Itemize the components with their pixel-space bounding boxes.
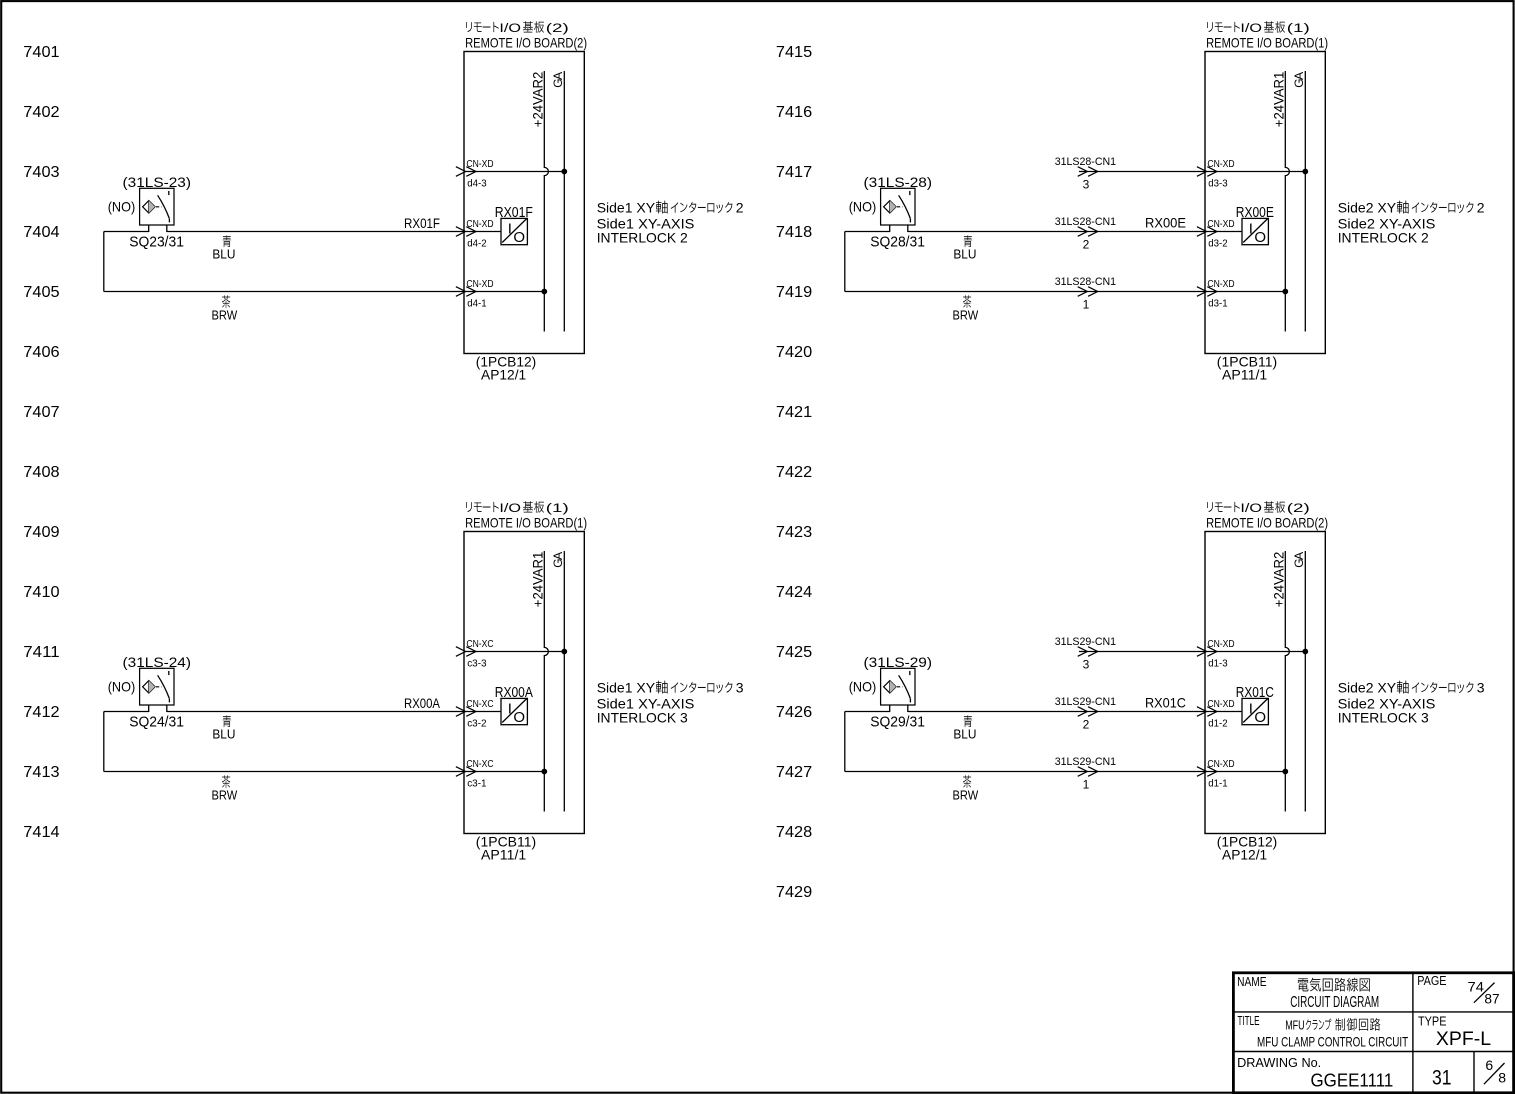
wire SQ28/31 blue lead row — [845, 231, 890, 233]
svg-text:BRW: BRW — [953, 788, 979, 803]
svg-text:BLU: BLU — [212, 247, 235, 262]
svg-text:7412: 7412 — [23, 704, 59, 721]
svg-text:7424: 7424 — [776, 584, 812, 601]
wire SQ24/31 left loop vertical — [103, 712, 105, 772]
svg-text:CN-XD: CN-XD — [1207, 759, 1234, 770]
svg-text:I: I — [508, 701, 512, 718]
svg-text:31LS29-CN1: 31LS29-CN1 — [1055, 636, 1116, 648]
svg-text:REMOTE I/O BOARD(2): REMOTE I/O BOARD(2) — [465, 34, 587, 50]
svg-text:7401: 7401 — [23, 44, 59, 61]
svg-text:(1): (1) — [546, 503, 569, 515]
svg-text:DRAWING No.: DRAWING No. — [1237, 1055, 1321, 1070]
bus GA vertical line — [1304, 71, 1306, 332]
svg-text:7418: 7418 — [776, 224, 812, 241]
svg-text:7408: 7408 — [23, 464, 59, 481]
sheet title Japanese: MFU clamp control circuit — [1285, 1018, 1380, 1033]
svg-text:BRW: BRW — [212, 308, 238, 323]
bus +24VAR2 vertical line with hop over pin wire — [1285, 551, 1289, 812]
svg-text:c3-3: c3-3 — [467, 659, 487, 670]
pin d4-3 wire to GA bus — [464, 171, 564, 173]
svg-text:BRW: BRW — [953, 308, 979, 323]
svg-text:PAGE: PAGE — [1417, 973, 1447, 988]
connector pin CN-XD d1-3 entry arrows — [1197, 647, 1217, 657]
svg-text:d4-2: d4-2 — [467, 239, 487, 250]
cable arrows 31LS29-CN1 pin 1 — [1078, 767, 1098, 777]
svg-text:I/O: I/O — [499, 23, 521, 35]
svg-text:O: O — [1254, 709, 1266, 726]
remote I/O board AP12/1 outline — [464, 52, 584, 354]
line number column 7401-7414 — [23, 44, 59, 841]
svg-text:CN-XD: CN-XD — [1207, 159, 1234, 170]
wire color label brown — [212, 775, 238, 802]
svg-text:INTERLOCK 3: INTERLOCK 3 — [597, 710, 688, 726]
svg-text:1: 1 — [1083, 777, 1090, 791]
svg-text:(31LS-24): (31LS-24) — [123, 654, 192, 670]
pin c3-2 wire to I/O module — [464, 711, 501, 713]
cable arrows 31LS28-CN1 pin 3 — [1078, 167, 1098, 177]
svg-text:c3-2: c3-2 — [467, 719, 487, 730]
connector pin CN-XC c3-1 entry arrows — [456, 767, 476, 777]
line number column 7415-7429 — [776, 44, 812, 901]
svg-text:7425: 7425 — [776, 644, 812, 661]
connector pin CN-XD d3-3 entry arrows — [1197, 167, 1217, 177]
svg-text:2: 2 — [1477, 199, 1485, 215]
svg-text:SQ29/31: SQ29/31 — [870, 714, 925, 731]
svg-text:7423: 7423 — [776, 524, 812, 541]
svg-text:7429: 7429 — [776, 884, 812, 901]
svg-text:d1-3: d1-3 — [1208, 659, 1228, 670]
svg-text:CN-XD: CN-XD — [1207, 639, 1234, 650]
connector pin CN-XD d3-1 entry arrows — [1197, 287, 1217, 297]
svg-text:7426: 7426 — [776, 704, 812, 721]
svg-text:d3-2: d3-2 — [1208, 239, 1228, 250]
wire color label brown — [212, 295, 238, 322]
svg-text:3: 3 — [1083, 657, 1090, 671]
junction node c3-3-GA — [561, 649, 567, 655]
svg-text:7427: 7427 — [776, 764, 812, 781]
svg-text:7411: 7411 — [23, 644, 59, 661]
svg-text:31LS29-CN1: 31LS29-CN1 — [1055, 756, 1116, 768]
connector pin CN-XD d4-1 entry arrows — [456, 287, 476, 297]
svg-text:31LS28-CN1: 31LS28-CN1 — [1055, 156, 1116, 168]
page number fraction 74/87 — [1468, 979, 1500, 1007]
svg-text:(31LS-28): (31LS-28) — [864, 174, 933, 190]
svg-text:INTERLOCK 2: INTERLOCK 2 — [1338, 230, 1429, 246]
svg-text:31LS28-CN1: 31LS28-CN1 — [1055, 276, 1116, 288]
svg-text:(2): (2) — [546, 23, 569, 35]
svg-text:+24VAR2: +24VAR2 — [529, 71, 545, 127]
bus GA vertical line — [563, 71, 565, 332]
svg-text:(31LS-29): (31LS-29) — [864, 654, 933, 670]
svg-text:CN-XC: CN-XC — [466, 759, 493, 770]
svg-text:(NO): (NO) — [108, 679, 136, 695]
svg-text:GA: GA — [551, 552, 565, 568]
I/O module RX00E — [1242, 218, 1268, 246]
svg-text:I/O: I/O — [1240, 503, 1262, 515]
svg-text:O: O — [513, 709, 525, 726]
svg-text:RX01C: RX01C — [1236, 685, 1274, 701]
svg-text:3: 3 — [1477, 679, 1485, 695]
svg-text:7415: 7415 — [776, 44, 812, 61]
bus +24VAR1 vertical line with hop over pin wire — [544, 551, 548, 812]
svg-text:SQ23/31: SQ23/31 — [129, 234, 184, 251]
cable arrows 31LS28-CN1 pin 2 — [1078, 227, 1098, 237]
pin c3-3 wire to GA bus — [464, 651, 564, 653]
pin d3-3 wire to GA bus — [1205, 171, 1305, 173]
svg-text:RX01F: RX01F — [495, 205, 533, 221]
wire color label blue — [953, 715, 976, 741]
svg-text:8: 8 — [1498, 1070, 1506, 1086]
connector pin CN-XD d1-1 entry arrows — [1197, 767, 1217, 777]
svg-text:d1-1: d1-1 — [1208, 779, 1228, 790]
pin d1-1 wire to +24VAR2 bus — [1205, 771, 1285, 773]
svg-text:3: 3 — [736, 679, 744, 695]
svg-text:RX00E: RX00E — [1145, 215, 1186, 231]
svg-text:d3-1: d3-1 — [1208, 299, 1228, 310]
svg-text:Side1 XY: Side1 XY — [597, 679, 656, 695]
pin d1-3 wire to GA bus — [1205, 651, 1305, 653]
bus GA vertical line — [563, 551, 565, 812]
wire SQ29/31 brown return row — [845, 771, 1205, 773]
svg-text:I/O: I/O — [499, 503, 521, 515]
pin d4-1 wire to +24VAR2 bus — [464, 291, 544, 293]
svg-text:SQ28/31: SQ28/31 — [870, 234, 925, 251]
board title AP12/1 Japanese — [466, 21, 569, 35]
svg-text:7419: 7419 — [776, 284, 812, 301]
limit switch SQ23/31 proximity symbol — [140, 188, 174, 232]
svg-text:Side1 XY: Side1 XY — [597, 199, 656, 215]
wire SQ24/31 brown return row — [104, 771, 464, 773]
cable wire 31LS28-CN1 pin 3 to board — [1079, 171, 1205, 173]
function label Side1 XY-axis interlock 3 (Japanese) — [597, 679, 744, 695]
cable wire 31LS29-CN1 pin 3 to board — [1079, 651, 1205, 653]
svg-text:(NO): (NO) — [849, 199, 877, 215]
svg-text:CN-XC: CN-XC — [466, 699, 493, 710]
wire color label blue — [953, 235, 976, 261]
svg-text:CN-XC: CN-XC — [466, 639, 493, 650]
svg-text:CN-XD: CN-XD — [466, 219, 493, 230]
svg-text:6: 6 — [1485, 1057, 1493, 1073]
junction node d1-1-+24VAR2 — [1282, 769, 1288, 775]
svg-text:7428: 7428 — [776, 824, 812, 841]
svg-text:GA: GA — [1292, 552, 1306, 568]
wire SQ24/31 blue lead row — [104, 711, 149, 713]
wire SQ23/31 blue lead row — [104, 231, 149, 233]
title block page-number cell divider — [1473, 1052, 1475, 1093]
svg-text:7409: 7409 — [23, 524, 59, 541]
svg-text:d1-2: d1-2 — [1208, 719, 1228, 730]
svg-text:INTERLOCK 3: INTERLOCK 3 — [1338, 710, 1429, 726]
bus +24VAR1 vertical line with hop over pin wire — [1285, 71, 1289, 332]
svg-text:87: 87 — [1484, 990, 1499, 1006]
svg-text:CN-XD: CN-XD — [466, 279, 493, 290]
connector pin CN-XD d4-3 entry arrows — [456, 167, 476, 177]
svg-text:MFU: MFU — [1285, 1018, 1305, 1033]
junction node d1-3-GA — [1302, 649, 1308, 655]
svg-text:7416: 7416 — [776, 104, 812, 121]
svg-text:CIRCUIT DIAGRAM: CIRCUIT DIAGRAM — [1290, 994, 1379, 1011]
svg-text:(NO): (NO) — [849, 679, 877, 695]
connector pin CN-XD d4-2 entry arrows — [456, 227, 476, 237]
svg-text:(31LS-23): (31LS-23) — [123, 174, 192, 190]
wire SQ23/31 left loop vertical — [103, 232, 105, 292]
svg-text:CN-XD: CN-XD — [466, 159, 493, 170]
sheet fraction 6/8 — [1484, 1057, 1506, 1085]
title block outer frame — [1233, 973, 1513, 1093]
svg-text:Side2 XY: Side2 XY — [1338, 679, 1397, 695]
svg-text:RX01F: RX01F — [404, 215, 440, 231]
svg-text:7417: 7417 — [776, 164, 812, 181]
cable arrows 31LS29-CN1 pin 2 — [1078, 707, 1098, 717]
svg-text:31LS28-CN1: 31LS28-CN1 — [1055, 216, 1116, 228]
svg-text:d4-1: d4-1 — [467, 299, 487, 310]
svg-text:7403: 7403 — [23, 164, 59, 181]
wire SQ29/31 left loop vertical — [844, 712, 846, 772]
svg-text:7410: 7410 — [23, 584, 59, 601]
svg-text:7413: 7413 — [23, 764, 59, 781]
limit switch SQ28/31 proximity symbol — [881, 188, 915, 232]
svg-text:BLU: BLU — [212, 727, 235, 742]
svg-text:7414: 7414 — [23, 824, 59, 841]
svg-text:31: 31 — [1432, 1067, 1452, 1090]
svg-text:7404: 7404 — [23, 224, 59, 241]
pin d1-2 wire to I/O module — [1205, 711, 1242, 713]
svg-text:7421: 7421 — [776, 404, 812, 421]
svg-text:SQ24/31: SQ24/31 — [129, 714, 184, 731]
svg-text:RX00E: RX00E — [1236, 205, 1274, 221]
cable arrows 31LS28-CN1 pin 1 — [1078, 287, 1098, 297]
svg-text:(1): (1) — [1287, 23, 1310, 35]
limit switch SQ29/31 proximity symbol — [881, 668, 915, 712]
svg-text:3: 3 — [1083, 177, 1090, 191]
svg-text:I/O: I/O — [1240, 23, 1262, 35]
wire color label blue — [212, 235, 235, 261]
svg-text:NAME: NAME — [1237, 974, 1267, 989]
cable arrows 31LS29-CN1 pin 3 — [1078, 647, 1098, 657]
svg-text:I: I — [1249, 701, 1253, 718]
svg-text:AP12/1: AP12/1 — [481, 366, 526, 382]
pin d3-2 wire to I/O module — [1205, 231, 1242, 233]
svg-text:CN-XD: CN-XD — [1207, 219, 1234, 230]
junction node d3-3-GA — [1302, 169, 1308, 175]
board title AP11/1 Japanese — [1207, 21, 1310, 35]
svg-text:REMOTE I/O BOARD(1): REMOTE I/O BOARD(1) — [465, 514, 587, 530]
svg-text:74: 74 — [1468, 979, 1485, 995]
I/O module RX01F — [501, 218, 527, 246]
svg-text:REMOTE I/O BOARD(2): REMOTE I/O BOARD(2) — [1206, 514, 1328, 530]
remote I/O board AP12/1 outline — [1205, 532, 1325, 834]
junction node d4-1-+24VAR2 — [541, 289, 547, 295]
I/O module RX01C — [1242, 698, 1268, 726]
remote I/O board AP11/1 outline — [1205, 52, 1325, 354]
document name Japanese: circuit diagram — [1298, 978, 1370, 992]
svg-text:BRW: BRW — [212, 788, 238, 803]
svg-text:XPF-L: XPF-L — [1436, 1029, 1491, 1050]
svg-text:AP12/1: AP12/1 — [1222, 846, 1267, 862]
svg-text:2: 2 — [736, 199, 744, 215]
svg-text:(NO): (NO) — [108, 199, 136, 215]
svg-text:7406: 7406 — [23, 344, 59, 361]
svg-text:+24VAR1: +24VAR1 — [1270, 71, 1286, 127]
svg-text:INTERLOCK 2: INTERLOCK 2 — [597, 230, 688, 246]
svg-text:CN-XD: CN-XD — [1207, 699, 1234, 710]
title block row dividers — [1233, 1011, 1513, 1013]
svg-text:d3-3: d3-3 — [1208, 179, 1228, 190]
junction node d4-3-GA — [561, 169, 567, 175]
svg-text:GA: GA — [551, 72, 565, 88]
svg-text:7407: 7407 — [23, 404, 59, 421]
wire color label brown — [953, 775, 979, 802]
svg-text:AP11/1: AP11/1 — [1222, 366, 1267, 382]
svg-text:1: 1 — [1083, 297, 1090, 311]
svg-text:RX00A: RX00A — [495, 685, 533, 701]
wire SQ28/31 brown return row — [845, 291, 1205, 293]
svg-text:2: 2 — [1083, 237, 1090, 251]
svg-text:RX01C: RX01C — [1145, 695, 1186, 711]
svg-text:O: O — [513, 229, 525, 246]
wire SQ28/31 left loop vertical — [844, 232, 846, 292]
connector pin CN-XD d3-2 entry arrows — [1197, 227, 1217, 237]
remote I/O board AP11/1 outline — [464, 532, 584, 834]
junction node d3-1-+24VAR1 — [1282, 289, 1288, 295]
title block column divider — [1412, 973, 1414, 1093]
connector pin CN-XC c3-3 entry arrows — [456, 647, 476, 657]
board title AP11/1 Japanese — [466, 501, 569, 515]
bus GA vertical line — [1304, 551, 1306, 812]
pin d4-2 wire to I/O module — [464, 231, 501, 233]
junction node c3-1-+24VAR1 — [541, 769, 547, 775]
svg-text:7422: 7422 — [776, 464, 812, 481]
svg-text:31LS29-CN1: 31LS29-CN1 — [1055, 696, 1116, 708]
svg-text:7405: 7405 — [23, 284, 59, 301]
svg-text:GA: GA — [1292, 72, 1306, 88]
svg-text:I: I — [1249, 221, 1253, 238]
svg-text:GGEE1111: GGEE1111 — [1311, 1069, 1394, 1090]
svg-text:(2): (2) — [1287, 503, 1310, 515]
svg-text:+24VAR1: +24VAR1 — [529, 551, 545, 607]
svg-text:7420: 7420 — [776, 344, 812, 361]
svg-text:REMOTE I/O BOARD(1): REMOTE I/O BOARD(1) — [1206, 34, 1328, 50]
wire SQ29/31 blue lead row — [845, 711, 890, 713]
wire color label blue — [212, 715, 235, 741]
function label Side1 XY-axis interlock 2 (Japanese) — [597, 199, 744, 215]
svg-text:TITLE: TITLE — [1238, 1013, 1260, 1028]
I/O module RX00A — [501, 698, 527, 726]
connector pin CN-XD d1-2 entry arrows — [1197, 707, 1217, 717]
pin d3-1 wire to +24VAR1 bus — [1205, 291, 1285, 293]
svg-text:d4-3: d4-3 — [467, 179, 487, 190]
pin c3-1 wire to +24VAR1 bus — [464, 771, 544, 773]
connector pin CN-XC c3-2 entry arrows — [456, 707, 476, 717]
bus +24VAR2 vertical line with hop over pin wire — [544, 71, 548, 332]
wire color label brown — [953, 295, 979, 322]
svg-text:c3-1: c3-1 — [467, 779, 487, 790]
svg-text:7402: 7402 — [23, 104, 59, 121]
svg-text:Side2 XY: Side2 XY — [1338, 199, 1397, 215]
svg-text:RX00A: RX00A — [404, 695, 441, 711]
svg-text:TYPE: TYPE — [1418, 1014, 1447, 1029]
svg-text:I: I — [508, 221, 512, 238]
wire SQ23/31 brown return row — [104, 291, 464, 293]
svg-text:BLU: BLU — [953, 247, 976, 262]
board title AP12/1 Japanese — [1207, 501, 1310, 515]
limit switch SQ24/31 proximity symbol — [140, 668, 174, 712]
svg-text:2: 2 — [1083, 717, 1090, 731]
svg-text:O: O — [1254, 229, 1266, 246]
svg-text:AP11/1: AP11/1 — [481, 846, 526, 862]
svg-text:CN-XD: CN-XD — [1207, 279, 1234, 290]
function label Side2 XY-axis interlock 2 (Japanese) — [1338, 199, 1485, 215]
svg-text:MFU CLAMP CONTROL CIRCUIT: MFU CLAMP CONTROL CIRCUIT — [1257, 1034, 1409, 1050]
svg-text:BLU: BLU — [953, 727, 976, 742]
function label Side2 XY-axis interlock 3 (Japanese) — [1338, 679, 1485, 695]
svg-text:+24VAR2: +24VAR2 — [1270, 551, 1286, 607]
